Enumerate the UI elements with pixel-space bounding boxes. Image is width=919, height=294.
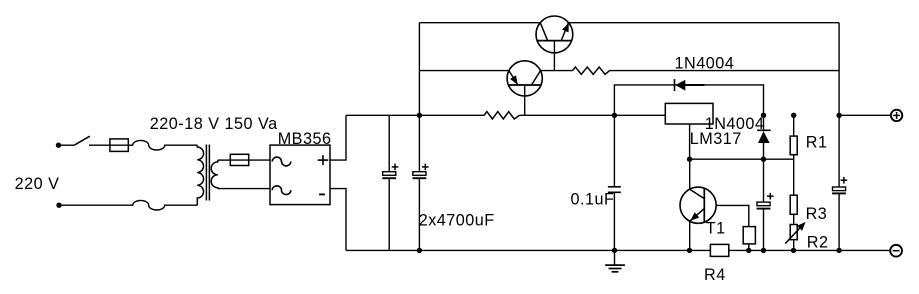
resistor (current sense, main rail) [484, 112, 519, 119]
wire: rail2 left [419, 70, 509, 72]
svg-text:0.1uF: 0.1uF [571, 191, 615, 209]
junction: D1 / main rail left [612, 113, 617, 118]
transformer TR1 secondary coil [211, 160, 218, 189]
svg-text:R4: R4 [704, 266, 726, 284]
junction: C4 / bottom rail [761, 248, 766, 253]
wire: output drop right side [838, 23, 840, 116]
wire: fuse F1 to transformer primary (wavy) [128, 140, 197, 150]
label R2 [807, 234, 829, 252]
svg-text:1N4004: 1N4004 [675, 55, 735, 73]
wire: Q2 base to main rail [524, 85, 526, 115]
wire: switch to fuse F1 [89, 144, 110, 146]
wire: main + rail left [346, 114, 484, 116]
svg-text:220 V: 220 V [15, 175, 60, 193]
wire: main rail to LM317 input [520, 114, 666, 116]
label LM317 [690, 130, 742, 148]
transformer TR1 core [206, 145, 209, 201]
bridge rectifier MB356 [270, 145, 330, 205]
label 220 V [15, 175, 60, 193]
regulator U1 LM317 [665, 103, 713, 124]
ground [605, 250, 625, 271]
wire: Q1 base [553, 41, 555, 71]
wire: to + terminal [839, 114, 891, 116]
wire: unregulated trunk [418, 23, 420, 116]
resistor (rail2, emitter ballast) [572, 67, 609, 74]
junction: D2 / ADJ line [761, 157, 766, 162]
junction: D2 / main rail [761, 113, 766, 118]
potentiometer R2 [785, 214, 805, 250]
bridge - mark [319, 193, 325, 195]
resistor R1 [790, 115, 797, 159]
label R3 [806, 205, 828, 223]
resistor R4 (current sense) [710, 244, 728, 256]
junction: C3 / bottom rail [612, 248, 617, 253]
wire: top rail collector side [419, 22, 540, 24]
wire: rail2 Q2 collector to resistor [541, 70, 573, 72]
transformer TR1 primary coil [197, 145, 203, 205]
svg-text:R3: R3 [806, 205, 828, 223]
wire: secondary bottom to bridge [218, 188, 270, 190]
wire: top rail emitter side [569, 22, 840, 24]
junction: T1 emitter / bottom rail [687, 248, 692, 253]
label 0.1uF [571, 191, 615, 209]
resistor R3 [790, 159, 797, 214]
wire: D1 bypass (out to in) [614, 85, 763, 115]
svg-text:220-18 V 150 Va: 220-18 V 150 Va [150, 115, 278, 133]
wire: T1 collector [689, 159, 691, 189]
wire: top terminal to switch [59, 144, 75, 146]
fuse F2 [230, 154, 248, 165]
fuse F1 [110, 139, 128, 152]
label 2x4700uF [419, 212, 495, 230]
junction: C5 / main rail [836, 113, 841, 118]
svg-text:T1: T1 [706, 220, 726, 238]
svg-text:2x4700uF: 2x4700uF [419, 212, 495, 230]
bridge AC input mark top [272, 157, 291, 166]
terminal: output - [890, 245, 902, 257]
label R4 [704, 266, 726, 284]
wire: secondary top to fuse F2 [218, 159, 231, 161]
junction: C5 / bottom rail [836, 248, 841, 253]
label 220-18 V 150 Va [150, 115, 278, 133]
capacitor C1 4700uF [382, 115, 398, 250]
wire: LM317 ADJ pin [689, 124, 691, 159]
switch S1 [74, 136, 90, 145]
transistor Q2 (driver, PNP) [507, 61, 542, 96]
terminal: AC input bottom [56, 203, 61, 208]
wire: bridge - to bottom rail [330, 189, 346, 251]
label R1 [806, 133, 828, 151]
capacitor C3 0.1uF [608, 115, 621, 250]
capacitor C5 (output) [832, 115, 847, 250]
terminal: AC input top [56, 143, 61, 148]
wire: bridge + to main rail [330, 115, 346, 160]
wire: bottom terminal to transformer primary (wavy) [59, 200, 197, 210]
terminal: output + [891, 110, 902, 121]
junction: R2 / bottom rail [791, 248, 796, 253]
junction: base resistor / bottom rail [746, 248, 751, 253]
label T1 [706, 220, 726, 238]
diode D1 1N4004 [675, 79, 705, 91]
label 1N4004 (D1) [675, 55, 735, 73]
svg-text:1N4004: 1N4004 [705, 115, 765, 133]
capacitor C2 4700uF [413, 115, 429, 250]
junction: C2 / main rail [417, 113, 422, 118]
junction: R1 top / main rail [791, 113, 796, 118]
label MB356 [278, 130, 332, 148]
transistor T1 (current limit) [680, 187, 716, 223]
resistor (T1 base) [743, 227, 755, 251]
junction: ADJ / T1 collector [687, 157, 692, 162]
wire: bottom rail [346, 249, 890, 251]
transistor Q1 (pass, NPN) [536, 16, 573, 53]
wire: fuse F2 to bridge [249, 159, 270, 161]
junction: C2 / bottom rail [417, 248, 422, 253]
wire: T1 emitter [689, 221, 691, 250]
capacitor C4 (ADJ bypass) [757, 159, 774, 250]
bridge AC input mark bottom [272, 186, 291, 195]
bridge + mark [318, 155, 329, 165]
svg-text:R2: R2 [807, 234, 829, 252]
wire: rail2 right [610, 70, 840, 72]
label 1N4004 (D2) [705, 115, 765, 133]
svg-text:MB356: MB356 [278, 130, 332, 148]
wire: T1 base [716, 205, 749, 226]
diode D2 1N4004 [757, 115, 771, 159]
svg-text:R1: R1 [806, 133, 828, 151]
wire: ADJ node line [690, 158, 794, 160]
